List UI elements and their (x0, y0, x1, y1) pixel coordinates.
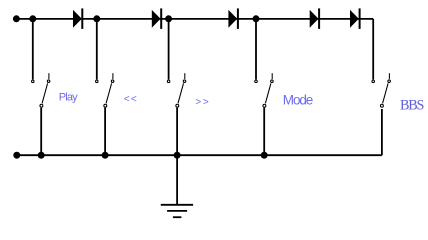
diode D1 (73, 8, 82, 29)
switch S1 Play (32, 73, 50, 107)
node bottom junction S4 (261, 152, 268, 159)
switch S4 Mode (255, 73, 273, 107)
node bottom junction S1 (38, 152, 45, 159)
switch S2 << (96, 73, 114, 107)
wire S4 bottom (263, 108, 265, 156)
node top junction S3 (165, 15, 172, 22)
svg-text:BBS: BBS (400, 97, 425, 113)
ground (161, 155, 193, 217)
wire right drop to BBS switch (372, 19, 374, 80)
wire S4 top (255, 19, 257, 80)
switch S3 >> (167, 73, 185, 107)
diode D3 (228, 8, 238, 29)
node top-left terminal (13, 15, 20, 22)
wire S2 bottom (104, 108, 106, 156)
wire top rail (16, 18, 373, 20)
wire S5 bottom (381, 109, 383, 155)
node bottom junction S2 (102, 152, 109, 159)
node bottom-left terminal (13, 152, 20, 159)
wire bottom rail (17, 154, 382, 156)
diode D2 (152, 8, 161, 29)
wire S3 bottom (176, 108, 178, 156)
node top junction S1 (29, 15, 36, 22)
node top junction S4 (253, 15, 260, 22)
wire S1 top (32, 19, 34, 80)
svg-text:Play: Play (59, 91, 78, 103)
svg-text:Mode: Mode (283, 93, 313, 108)
diode D5 (350, 8, 360, 29)
wire S2 top (96, 19, 98, 80)
node top junction S2 (93, 15, 100, 22)
wire S3 top (168, 19, 170, 80)
wire S1 bottom (40, 108, 42, 156)
switch S5 BBS (372, 73, 390, 107)
svg-text:>>: >> (195, 97, 210, 108)
node bottom junction S3 / ground (174, 152, 181, 159)
diode D4 (310, 8, 319, 29)
svg-text:<<: << (124, 94, 138, 105)
